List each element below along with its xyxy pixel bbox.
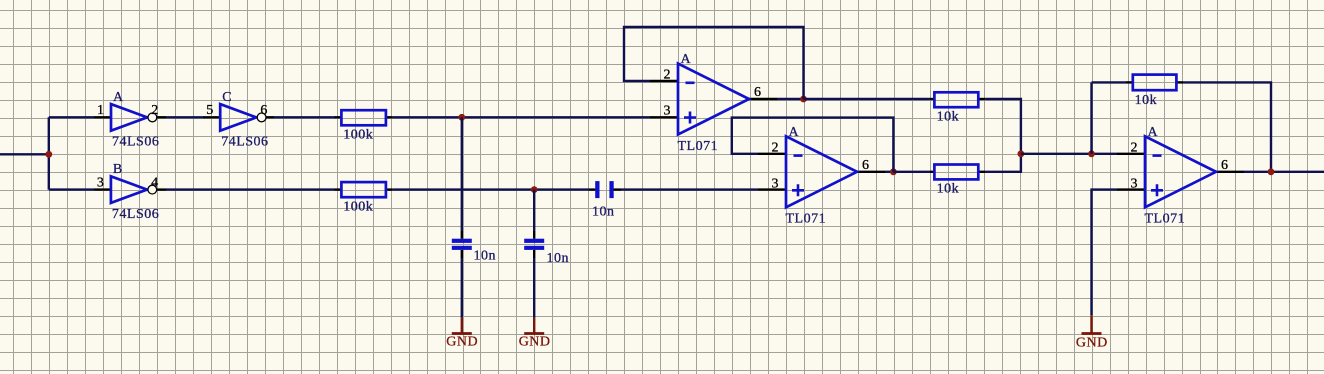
junction op-amp3 feedback tap <box>1088 150 1095 157</box>
svg-text:2: 2 <box>1131 140 1139 155</box>
inverter C (U1C) 74LS06 <box>206 90 268 150</box>
svg-text:GND: GND <box>446 335 478 350</box>
svg-text:74LS06: 74LS06 <box>112 207 159 222</box>
svg-text:3: 3 <box>1131 176 1139 191</box>
junction bottom row to C2 <box>531 186 538 193</box>
C1 top pin stub <box>461 231 463 239</box>
wire bottom row down to C2 <box>533 190 535 231</box>
svg-text:A: A <box>681 52 692 67</box>
svg-text:10n: 10n <box>547 251 570 266</box>
inverter A (U1A) 74LS06 <box>97 90 159 150</box>
wire op-amp2 output <box>885 171 893 173</box>
resistor 100k <box>341 182 386 214</box>
resistor 10k <box>1133 75 1177 108</box>
R3 right pin stub <box>978 98 986 100</box>
wire R2 to C3 <box>393 188 589 190</box>
svg-text:A: A <box>789 125 800 140</box>
wire C3 to op-amp2 pin3 <box>621 188 758 190</box>
wire R1 to op-amp1 pin3 <box>393 116 650 118</box>
svg-text:100k: 100k <box>343 199 373 214</box>
svg-text:4: 4 <box>151 175 159 190</box>
svg-text:10k: 10k <box>937 110 960 125</box>
resistor 10k <box>934 92 978 124</box>
svg-text:10k: 10k <box>937 182 960 197</box>
pin 6 stub inverter C <box>265 116 275 118</box>
R2 left pin stub <box>335 188 342 190</box>
svg-text:TL071: TL071 <box>786 212 827 227</box>
C3 right pin stub <box>613 188 621 190</box>
R3 left pin stub <box>930 98 935 100</box>
R1 left pin stub <box>335 116 342 118</box>
svg-text:3: 3 <box>97 175 105 190</box>
output bubble <box>257 113 266 122</box>
pin 2 stub op-amp2 <box>758 153 786 155</box>
pin 2 stub inverter A <box>157 116 166 118</box>
wire op-amp1 out to R3 <box>804 98 930 100</box>
svg-text:6: 6 <box>862 158 870 173</box>
resistor 10k <box>934 165 978 197</box>
svg-text:A: A <box>113 90 124 105</box>
junction op-amp2 output <box>890 168 897 175</box>
C2 bottom pin stub <box>533 250 535 258</box>
wire op-amp2 out to R4 <box>893 171 929 173</box>
inverting input marker - <box>794 154 803 157</box>
output bubble <box>148 185 157 194</box>
svg-text:6: 6 <box>754 85 762 100</box>
R1 right pin stub <box>386 116 393 118</box>
wire summing node to op-amp3 <box>1021 153 1117 155</box>
svg-text:TL071: TL071 <box>1145 212 1186 227</box>
svg-text:5: 5 <box>206 103 214 118</box>
wire R4 to summing node <box>986 154 1021 172</box>
R5 left pin stub <box>1126 81 1133 83</box>
svg-text:2: 2 <box>151 103 159 118</box>
svg-text:2: 2 <box>664 68 672 83</box>
wire inverter A to C <box>166 116 203 118</box>
junction op-amp3 output <box>1268 168 1275 175</box>
pin 2 stub op-amp3 <box>1117 153 1145 155</box>
svg-text:C: C <box>222 90 232 105</box>
C1 bottom pin stub <box>461 250 463 258</box>
junction input branch <box>45 151 52 158</box>
C3 left pin stub <box>589 188 596 190</box>
svg-text:B: B <box>113 162 123 177</box>
wire to inverter A <box>49 116 94 118</box>
svg-text:74LS06: 74LS06 <box>112 135 159 150</box>
inverting input marker - <box>1153 154 1162 157</box>
svg-text:6: 6 <box>260 103 268 118</box>
svg-text:10k: 10k <box>1135 93 1158 108</box>
svg-text:1: 1 <box>97 103 105 118</box>
junction op-amp1 output <box>800 96 807 103</box>
junction summing node <box>1018 150 1025 157</box>
pin 3 stub op-amp3 <box>1117 188 1145 190</box>
wire op-amp3 pin3 to GND3 <box>1092 190 1118 316</box>
svg-text:3: 3 <box>664 104 672 119</box>
wire C1 to GND1 <box>461 258 463 318</box>
R5 right pin stub <box>1176 81 1183 83</box>
pin 3 stub op-amp1 <box>650 116 678 118</box>
ground <box>1076 315 1108 350</box>
resistor 100k <box>341 110 386 142</box>
R4 left pin stub <box>930 171 935 173</box>
svg-text:2: 2 <box>772 140 780 155</box>
ground <box>519 318 551 350</box>
wire op-amp1 output <box>777 98 804 100</box>
svg-text:10n: 10n <box>592 205 615 220</box>
junction top row to C1 <box>458 114 465 121</box>
pin 1 stub inverter A <box>94 116 111 118</box>
wire op-amp3 feedback up <box>1090 82 1092 153</box>
svg-text:GND: GND <box>519 335 551 350</box>
pin 6 stub op-amp1 <box>749 98 777 100</box>
output bubble <box>148 113 157 122</box>
wire op-amp1 feedback loop <box>624 27 804 99</box>
ground <box>446 318 478 350</box>
wire inverter B to R2 <box>166 188 335 190</box>
pin 6 stub op-amp3 <box>1216 171 1244 173</box>
pin 5 stub inverter C <box>203 116 220 118</box>
pin 3 stub inverter B <box>94 188 111 190</box>
svg-text:100k: 100k <box>343 128 373 143</box>
non-inverting input marker + <box>1151 184 1163 196</box>
svg-text:3: 3 <box>772 176 780 191</box>
op-amp U3 TL071 <box>772 125 870 227</box>
R2 right pin stub <box>386 188 393 190</box>
svg-text:A: A <box>1148 125 1159 140</box>
C2 top pin stub <box>533 231 535 239</box>
wire R3 to summing node <box>986 99 1021 154</box>
pin 2 stub op-amp1 <box>650 80 678 82</box>
wire R5 to op-amp3 output <box>1184 82 1271 171</box>
wire input net <box>0 153 49 155</box>
svg-text:GND: GND <box>1076 335 1108 350</box>
wire op-amp2 feedback loop <box>732 118 894 172</box>
op-amp U4 TL071 <box>1131 125 1229 227</box>
wire input branch vertical <box>48 117 50 189</box>
capacitor 10n <box>524 239 569 266</box>
capacitor 10n (series) <box>592 181 615 219</box>
inverting input marker - <box>686 82 695 85</box>
op-amp U2 TL071 <box>664 52 762 154</box>
svg-text:10n: 10n <box>474 249 497 264</box>
pin 6 stub op-amp2 <box>857 171 885 173</box>
wire inverter C to R1 <box>274 116 335 118</box>
svg-text:6: 6 <box>1221 158 1229 173</box>
wire to inverter B <box>49 188 94 190</box>
capacitor 10n <box>452 239 496 264</box>
svg-text:74LS06: 74LS06 <box>221 135 268 150</box>
pin 4 stub inverter B <box>157 188 166 190</box>
svg-text:TL071: TL071 <box>678 139 719 154</box>
inverter B (U1B) 74LS06 <box>97 162 159 222</box>
wire op-amp3 output to edge <box>1244 171 1324 173</box>
non-inverting input marker + <box>684 112 696 124</box>
wire feedback to R5 <box>1092 81 1127 83</box>
R4 right pin stub <box>978 171 986 173</box>
non-inverting input marker + <box>792 184 804 196</box>
pin 3 stub op-amp2 <box>758 188 786 190</box>
wire top row down to C1 <box>461 117 463 231</box>
wire C2 to GND2 <box>533 258 535 318</box>
